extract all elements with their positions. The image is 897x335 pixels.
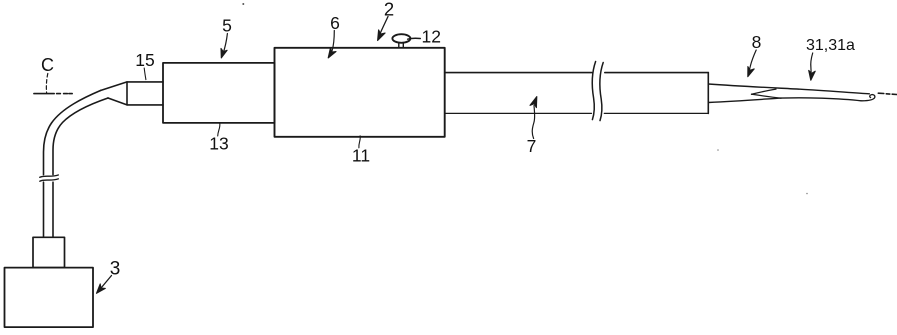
- svg-text:11: 11: [352, 146, 370, 166]
- probe wire taper (top): [708, 84, 869, 94]
- svg-text:31,31a: 31,31a: [806, 37, 855, 54]
- arrow from 2: [379, 17, 388, 36]
- svg-text:C: C: [41, 55, 54, 75]
- arrow from 7: [532, 106, 534, 139]
- sheath break marks: [592, 62, 603, 121]
- blade bottom edge: [781, 98, 861, 101]
- power supply box 3: [5, 268, 94, 328]
- svg-text:13: 13: [209, 133, 228, 153]
- probe wire taper (bottom): [708, 98, 781, 102]
- flexible cord outer curve: [44, 91, 101, 238]
- arrow from 31,31a: [811, 53, 813, 76]
- arrow from 8: [749, 50, 757, 73]
- sheath end cap: [707, 73, 709, 114]
- arrow from 6: [332, 31, 334, 52]
- leader from 13: [218, 123, 220, 136]
- tip slit (lower edge): [752, 94, 782, 98]
- svg-text:8: 8: [752, 32, 762, 52]
- speck (scan dot, middle right): [717, 149, 719, 151]
- leader from 11: [359, 136, 360, 148]
- svg-text:6: 6: [330, 13, 340, 33]
- outer sheath 7 bottom line: [445, 112, 709, 114]
- flexible cord inner curve: [53, 98, 108, 237]
- leader from 15: [144, 68, 146, 80]
- svg-text:12: 12: [422, 27, 441, 47]
- leader from C (dashed): [46, 74, 47, 93]
- main housing box (6/11): [275, 48, 445, 137]
- connector taper: [101, 82, 128, 105]
- svg-text:15: 15: [135, 50, 154, 70]
- connector sleeve 15: [127, 82, 163, 105]
- arrow from 5: [223, 34, 228, 55]
- centerline C (dash-dot, left): [34, 93, 72, 95]
- plug connector: [33, 237, 65, 267]
- handpiece rear body box (5/13): [163, 63, 275, 123]
- arrow from 3: [100, 276, 112, 290]
- svg-text:5: 5: [222, 16, 232, 36]
- svg-text:2: 2: [384, 0, 394, 19]
- cord break marks: [40, 175, 59, 181]
- speck (scan dot, lower right): [806, 193, 808, 195]
- outer sheath 7 top line: [445, 72, 709, 74]
- tip slit (upper edge): [752, 89, 777, 94]
- centerline dashes (right): [878, 93, 897, 94]
- tie line to 12: [408, 37, 421, 40]
- tip hook curl: [861, 95, 875, 101]
- svg-text:7: 7: [527, 136, 537, 156]
- valve knob 12: [392, 34, 410, 43]
- speck (scan dot, top): [242, 3, 244, 5]
